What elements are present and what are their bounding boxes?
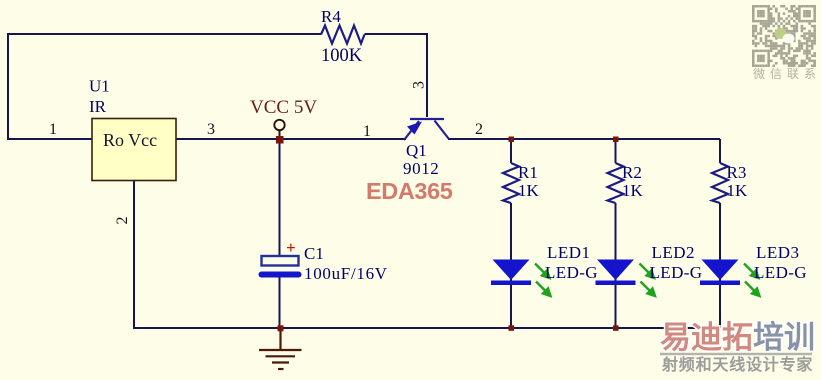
wire branch1 upper — [510, 139, 512, 163]
svg-text:Ro Vcc: Ro Vcc — [103, 130, 157, 150]
svg-text:LED-G: LED-G — [545, 263, 598, 282]
svg-text:R4: R4 — [321, 7, 341, 26]
ground — [259, 328, 302, 369]
junction VCC node — [276, 136, 284, 144]
svg-text:EDA365: EDA365 — [366, 178, 453, 204]
svg-text:100K: 100K — [321, 46, 363, 66]
wire branch2 lower — [615, 203, 617, 328]
svg-text:1K: 1K — [622, 181, 644, 200]
wire top-right to Q1 base — [365, 34, 428, 117]
svg-text:LED1: LED1 — [547, 243, 591, 262]
junction ground node — [278, 325, 284, 331]
svg-text:LED2: LED2 — [652, 243, 696, 262]
svg-text:3: 3 — [207, 121, 215, 138]
junction bottom-branch1 — [509, 325, 515, 331]
wire VCC to C1 — [279, 139, 281, 256]
svg-text:LED-G: LED-G — [754, 263, 807, 282]
junction collector-branch1 — [509, 137, 515, 143]
svg-text:3: 3 — [411, 81, 428, 89]
svg-text:1: 1 — [49, 121, 57, 138]
LED1 — [491, 243, 598, 296]
svg-text:1: 1 — [363, 123, 371, 140]
wire bottom rail — [133, 327, 720, 329]
svg-text:+: + — [286, 238, 296, 257]
junction collector-branch2 — [613, 137, 619, 143]
wire top-left horizontal — [8, 33, 321, 35]
wire branch3 lower — [719, 203, 721, 328]
capacitor C1 — [259, 238, 388, 283]
svg-text:C1: C1 — [304, 244, 324, 263]
wire branch1 lower — [510, 203, 512, 328]
svg-text:100uF/16V: 100uF/16V — [304, 264, 388, 283]
svg-text:Q1: Q1 — [406, 141, 427, 160]
power VCC 5V — [250, 97, 317, 139]
resistor R2 — [608, 163, 644, 203]
svg-text:易迪拓培训: 易迪拓培训 — [660, 320, 815, 355]
svg-text:VCC 5V: VCC 5V — [250, 97, 317, 118]
QR center icon — [775, 28, 787, 39]
svg-text:R3: R3 — [727, 163, 747, 182]
svg-text:U1: U1 — [89, 77, 110, 96]
transistor Q1 — [403, 119, 449, 178]
junction bottom-branch2 — [613, 325, 619, 331]
svg-text:LED3: LED3 — [756, 243, 800, 262]
svg-text:2: 2 — [475, 121, 483, 138]
resistor R3 — [712, 163, 748, 203]
wire Q1 collector rail — [448, 138, 720, 140]
svg-text:LED-G: LED-G — [650, 263, 703, 282]
wire U1 pin3 to Q1 emitter — [176, 138, 406, 140]
resistor R4 — [321, 7, 365, 66]
svg-text:1K: 1K — [727, 181, 749, 200]
svg-text:9012: 9012 — [403, 159, 439, 178]
wire C1 to ground rail — [279, 277, 281, 328]
component U1 — [89, 77, 176, 181]
wire U1 pin1 — [7, 138, 92, 140]
svg-text:射频和天线设计专家: 射频和天线设计专家 — [661, 355, 813, 374]
svg-text:1K: 1K — [518, 181, 540, 200]
LED3 — [700, 243, 807, 296]
wire branch2 upper — [615, 139, 617, 163]
svg-text:2: 2 — [114, 217, 131, 225]
resistor R1 — [503, 163, 540, 203]
wire U1 pin2 down — [133, 181, 135, 328]
logo 易迪拓培训 — [660, 320, 815, 374]
svg-text:微信联系: 微信联系 — [753, 67, 821, 81]
svg-text:R1: R1 — [518, 163, 538, 182]
svg-text:R2: R2 — [622, 163, 642, 182]
wire branch3 upper — [719, 139, 721, 163]
LED2 — [596, 243, 703, 296]
wire left vertical — [7, 33, 9, 139]
svg-text:IR: IR — [89, 97, 107, 116]
QR code watermark — [752, 5, 816, 67]
